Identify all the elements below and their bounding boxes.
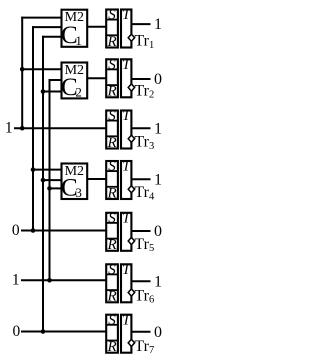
junction dot L2/row5 input [31,228,36,233]
svg-text:1: 1 [154,171,162,188]
svg-text:1: 1 [12,272,20,289]
junction dot L3/C2 [41,89,46,94]
wire L2 to C1 input 2 [32,26,62,28]
wire C3 output to Tr4 [87,178,106,180]
svg-text:R: R [106,289,116,305]
svg-text:S: S [108,108,116,124]
svg-text:1: 1 [154,120,162,137]
svg-text:Tr7: Tr7 [134,338,154,356]
flip-flop Tr2 box [106,57,132,100]
inverse output diamond of Tr7 [128,339,134,346]
output wire of Tr2 [131,78,150,80]
svg-text:S: S [108,262,116,278]
svg-text:Tr1: Tr1 [134,33,154,51]
input wire row Tr3 [14,127,106,129]
flip-flop Tr3 box [106,108,132,151]
output wire of Tr5 [131,230,150,232]
inverse output diamond of Tr1 [128,34,134,41]
majority element M2 C2 [61,63,87,101]
svg-text:S: S [108,7,116,23]
bus line L2 (row5 input to C1,C3) [32,26,34,230]
output wire of Tr1 [131,23,150,25]
flip-flop Tr7 box [106,312,132,355]
svg-text:Tr4: Tr4 [134,184,155,202]
junction dot L2/C3 [31,167,36,172]
wire L1 to C1 input 1 [21,17,61,19]
svg-text:1: 1 [75,33,82,48]
wire L1 to C2 input 1 [22,68,61,70]
wire L4 to C2 input 2 [49,79,62,81]
wire L3 to C3 input 2 [43,179,62,181]
junction dot L4/row6 input [47,278,52,283]
wire L4 to C3 input 3 [50,187,62,189]
svg-text:S: S [108,57,116,73]
svg-text:R: R [106,84,116,100]
flip-flop Tr6 box [106,262,132,305]
svg-text:2: 2 [75,84,82,99]
inverse output diamond of Tr6 [128,289,134,296]
inverse output diamond of Tr4 [128,186,134,193]
wire C2 output to Tr2 [87,77,106,79]
junction dot L1/row3 input [20,126,25,131]
svg-text:R: R [106,237,116,253]
inverse output diamond of Tr2 [128,84,134,91]
svg-text:Tr6: Tr6 [134,288,154,306]
wire C1 output to Tr1 [87,26,106,28]
svg-text:S: S [108,159,116,175]
svg-text:0: 0 [12,222,20,239]
inverse output diamond of Tr3 [128,135,134,142]
output wire of Tr4 [131,178,150,180]
output wire of Tr6 [131,280,150,282]
flip-flop Tr4 box [106,159,132,202]
bus line L1 (row3 input to C1,C2) [21,17,23,129]
input wire row Tr7 [21,331,106,333]
wire L3 to C1 input 3 [42,36,62,38]
majority element M2 C3 [61,164,87,202]
svg-text:3: 3 [75,185,82,200]
svg-text:0: 0 [154,71,162,88]
svg-text:0: 0 [154,223,162,240]
junction dot L3/row7 input [41,329,46,334]
svg-text:Tr2: Tr2 [134,83,154,101]
svg-text:R: R [106,339,116,355]
inverse output diamond of Tr5 [128,237,134,244]
bus line L4 (row6 input to C2,C3) [49,79,51,280]
svg-text:1: 1 [154,273,162,290]
svg-text:S: S [108,312,116,328]
junction dot L1/C2 [20,67,25,72]
svg-text:1: 1 [154,16,162,33]
junction dot L4/C3 [47,186,52,191]
svg-text:R: R [106,34,116,50]
svg-text:R: R [106,135,116,151]
junction dot L3/C3 [41,178,46,183]
wire L2 to C3 input 1 [33,169,62,171]
svg-text:S: S [108,210,116,226]
input wire row Tr6 [21,279,106,281]
flip-flop Tr1 box [106,7,132,50]
svg-text:Tr5: Tr5 [134,236,154,254]
input wire row Tr5 [21,230,106,232]
wire L3 to C2 input 3 [43,91,62,93]
output wire of Tr3 [131,127,150,129]
majority element M2 C1 [61,10,87,50]
svg-text:0: 0 [154,324,162,341]
svg-text:Tr3: Tr3 [134,134,154,152]
bus line L3 (row7 input to C1,C2,C3) [42,36,44,332]
flip-flop Tr5 box [106,210,132,253]
output wire of Tr7 [131,331,150,333]
svg-text:1: 1 [5,120,13,137]
svg-text:R: R [106,185,116,201]
svg-text:0: 0 [13,323,21,340]
